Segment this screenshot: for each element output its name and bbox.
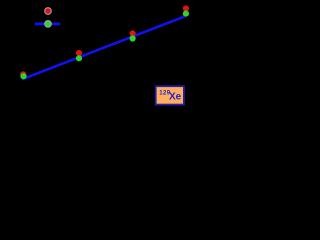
svg-text:Xe: Xe	[169, 92, 182, 103]
